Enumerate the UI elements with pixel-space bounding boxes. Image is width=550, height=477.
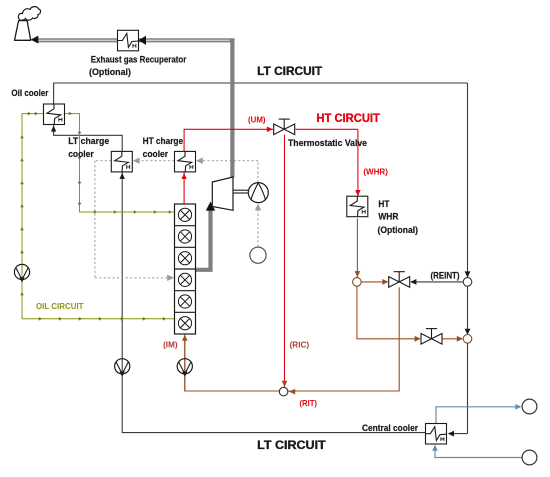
svg-text:OIL CIRCUIT: OIL CIRCUIT <box>36 302 84 311</box>
svg-text:(RIT): (RIT) <box>300 399 318 408</box>
svg-text:Oil cooler: Oil cooler <box>11 88 48 99</box>
svg-text:HT CIRCUIT: HT CIRCUIT <box>316 113 380 125</box>
svg-text:HT charge: HT charge <box>143 136 184 147</box>
svg-text:LT CIRCUIT: LT CIRCUIT <box>257 440 326 452</box>
svg-text:Central cooler: Central cooler <box>362 423 418 434</box>
svg-text:(IM): (IM) <box>163 341 178 350</box>
svg-text:cooler: cooler <box>143 149 169 160</box>
svg-text:(REINT): (REINT) <box>431 271 460 282</box>
svg-text:(RIC): (RIC) <box>290 340 310 349</box>
svg-text:HT: HT <box>378 199 389 210</box>
svg-text:LT charge: LT charge <box>68 136 109 147</box>
svg-text:(Optional): (Optional) <box>378 225 419 236</box>
svg-text:cooler: cooler <box>68 149 94 160</box>
svg-text:WHR: WHR <box>378 212 398 223</box>
svg-text:LT CIRCUIT: LT CIRCUIT <box>257 66 322 78</box>
svg-text:(Optional): (Optional) <box>89 67 131 78</box>
svg-text:(UM): (UM) <box>248 115 266 124</box>
svg-text:Thermostatic Valve: Thermostatic Valve <box>288 138 367 149</box>
svg-text:Exhaust gas Recuperator: Exhaust gas Recuperator <box>91 55 187 66</box>
svg-text:(WHR): (WHR) <box>363 168 388 177</box>
